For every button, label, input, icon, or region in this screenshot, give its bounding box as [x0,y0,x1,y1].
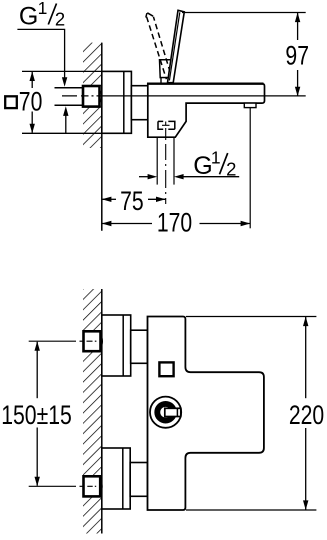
svg-text:220: 220 [289,401,324,431]
spout axis line / 97 lower extension [101,95,306,97]
svg-text:75: 75 [120,187,144,217]
dimension 170 [102,223,152,225]
knob tab [165,408,181,416]
lower escutcheon inner line [122,448,124,509]
svg-text:G: G [19,3,38,31]
extension line bottom of escutcheon [22,132,102,134]
dimension 97: vertical line + arrows [297,13,299,41]
svg-text:170: 170 [157,209,192,239]
lever inner edge line [169,12,179,80]
wall hatching (front view) [83,289,102,534]
dimension square-70: upper stub + arrow [31,72,33,88]
lower fitting square (front view) [84,476,101,496]
dimension 220 [305,317,307,399]
upper union stub [131,330,148,363]
dashed lever (raised position) [146,13,172,79]
svg-text:97: 97 [285,41,309,71]
dimension 150±15 [36,342,38,398]
pipe axis centerline dash-dot (left part) [62,95,101,97]
G1/2 top leader arrowhead [62,77,67,87]
upper fitting square (front view) [84,331,101,351]
G1/2 top leader line [17,29,64,80]
outlet vertical centerline dash-dot [165,122,167,205]
wall fitting square (side view) [83,86,100,107]
svg-text:2: 2 [55,9,65,30]
knob inner thick ring [157,404,174,421]
solid lever (rest position) [168,10,185,82]
lower escutcheon (front view) [102,448,130,509]
mousseur extension line for 170 [249,108,251,229]
outlet edge extension lines [156,138,158,185]
escutcheon flange (side view) [102,71,132,133]
outlet recess detail inside body [158,121,175,129]
svg-text:1: 1 [211,148,221,168]
union stub between escutcheon and body [131,86,147,120]
upper escutcheon inner line [122,315,124,376]
svg-text:G: G [193,152,212,180]
faucet body and spout (side view) [148,84,265,138]
thread lower arrow [65,112,67,133]
fitting round flange arc (side view) [100,90,102,104]
body/spout top edge (bold) [147,82,264,84]
wall hatching (side view) [83,43,102,148]
upper escutcheon (front view) [102,315,131,376]
supply pipe behind wall [55,87,85,89]
escutcheon inner lip line [123,71,125,133]
lower fitting centerline [29,485,76,487]
G1/2 middle leader lines + arrows [139,176,152,178]
extension lines for 220 [186,316,316,318]
dimension square-70: lower stub + arrow [31,112,33,133]
square symbol of square-70 label [5,96,17,108]
knob outer circle [150,397,181,428]
lower union stub [130,463,147,497]
svg-text:1: 1 [38,0,48,18]
lever base foot [161,78,170,84]
diverter button (small square) [159,362,173,376]
lever base (cartridge cover) [160,60,172,78]
upper fitting centerline [29,340,76,342]
lower fitting flange arc [100,480,102,494]
body (front view) [148,317,264,511]
knob tab inner line [176,408,178,416]
mousseur under spout tip [244,103,256,108]
svg-text:150±15: 150±15 [1,401,72,431]
outlet horizontal center dash [162,124,170,126]
dimension 97: top extension line [182,12,306,14]
extension line top of escutcheon [22,70,102,72]
svg-text:70: 70 [19,87,43,117]
wall surface line (side view) [101,43,103,231]
upper fitting flange arc [101,335,103,349]
dimension 75 [102,198,116,200]
wall surface line (front view) [101,289,103,534]
